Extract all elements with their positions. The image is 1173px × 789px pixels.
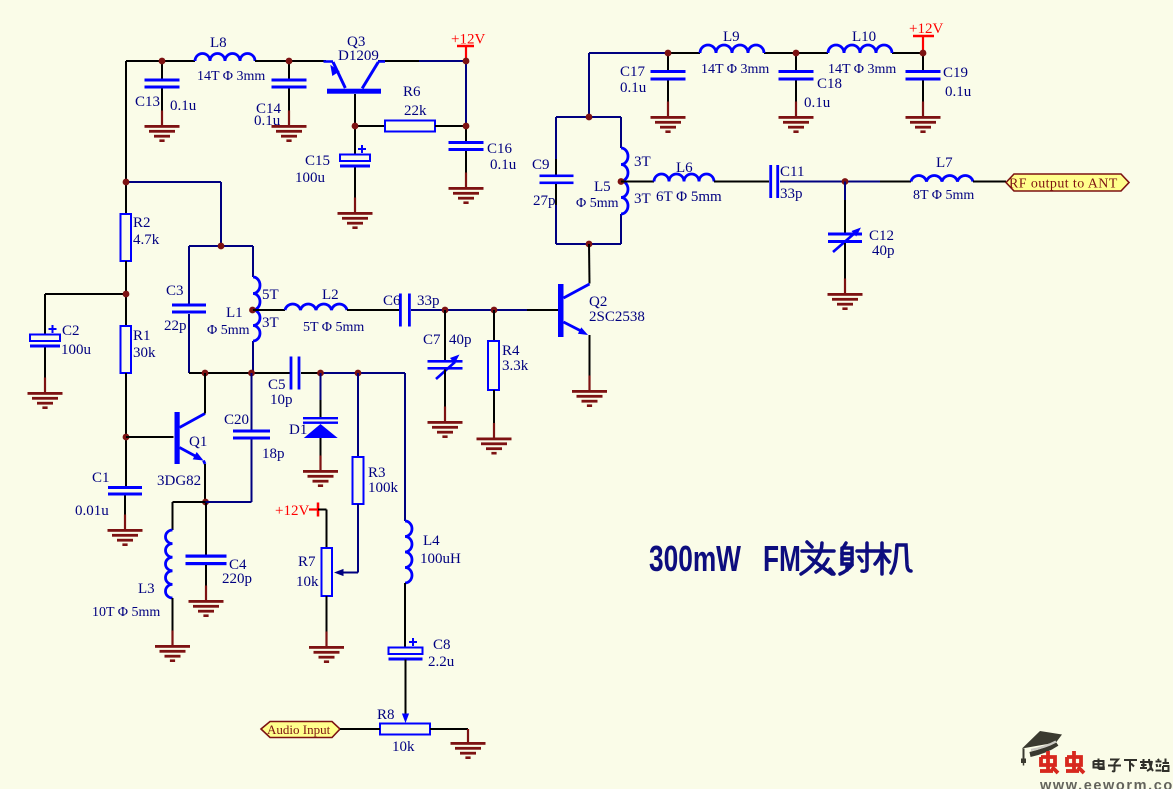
svg-text:3T: 3T [634, 191, 651, 207]
svg-text:R3: R3 [368, 465, 386, 481]
svg-text:D1: D1 [289, 422, 307, 438]
svg-text:Audio Input: Audio Input [267, 722, 331, 737]
svg-text:4.7k: 4.7k [133, 232, 160, 248]
svg-text:30k: 30k [133, 345, 156, 361]
svg-text:L2: L2 [322, 287, 339, 303]
svg-text:220p: 220p [222, 571, 252, 587]
svg-text:L9: L9 [723, 29, 740, 45]
svg-text:10T Φ 5mm: 10T Φ 5mm [92, 605, 160, 620]
svg-text:R7: R7 [298, 554, 316, 570]
svg-text:100uH: 100uH [420, 551, 461, 567]
svg-text:2.2u: 2.2u [428, 654, 455, 670]
svg-text:D1209: D1209 [338, 48, 379, 64]
svg-text:+12V: +12V [909, 21, 943, 37]
svg-text:3.3k: 3.3k [502, 358, 529, 374]
svg-text:L7: L7 [936, 155, 953, 171]
svg-text:C18: C18 [817, 76, 842, 92]
svg-text:L5: L5 [594, 179, 611, 195]
svg-text:RF output to ANT: RF output to ANT [1009, 177, 1118, 192]
svg-text:27p: 27p [533, 193, 556, 209]
svg-text:R8: R8 [377, 707, 395, 723]
svg-text:10k: 10k [392, 739, 415, 755]
svg-text:10p: 10p [270, 392, 293, 408]
svg-text:C15: C15 [305, 153, 330, 169]
svg-text:C12: C12 [869, 228, 894, 244]
svg-text:L3: L3 [138, 581, 155, 597]
svg-text:L8: L8 [210, 35, 227, 51]
svg-text:L6: L6 [676, 160, 693, 176]
svg-text:0.1u: 0.1u [804, 95, 831, 111]
svg-text:Q1: Q1 [189, 434, 207, 450]
svg-text:3T: 3T [262, 315, 279, 331]
svg-text:C9: C9 [532, 157, 550, 173]
svg-text:+12V: +12V [275, 503, 309, 519]
svg-text:33p: 33p [780, 186, 803, 202]
svg-text:0.1u: 0.1u [490, 157, 517, 173]
svg-text:0.01u: 0.01u [75, 503, 109, 519]
svg-text:40p: 40p [449, 332, 472, 348]
svg-text:3DG82: 3DG82 [157, 473, 201, 489]
svg-text:0.1u: 0.1u [620, 80, 647, 96]
svg-text:14T Φ 3mm: 14T Φ 3mm [828, 62, 896, 77]
svg-text:3T: 3T [634, 154, 651, 170]
svg-text:5T: 5T [262, 287, 279, 303]
svg-text:100u: 100u [295, 170, 326, 186]
svg-text:5T Φ 5mm: 5T Φ 5mm [303, 320, 364, 335]
svg-text:C17: C17 [620, 64, 646, 80]
svg-text:14T Φ 3mm: 14T Φ 3mm [197, 69, 265, 84]
svg-text:FM: FM [763, 538, 801, 579]
svg-text:100k: 100k [368, 480, 399, 496]
svg-text:C7: C7 [423, 332, 441, 348]
svg-text:+12V: +12V [451, 32, 485, 48]
svg-text:C13: C13 [135, 94, 160, 110]
svg-text:22k: 22k [404, 103, 427, 119]
svg-text:C11: C11 [780, 164, 804, 180]
svg-text:C19: C19 [943, 65, 968, 81]
svg-text:100u: 100u [61, 342, 92, 358]
svg-text:C2: C2 [62, 323, 80, 339]
svg-text:Φ 5mm: Φ 5mm [207, 323, 250, 338]
svg-text:Q2: Q2 [589, 294, 607, 310]
svg-text:C1: C1 [92, 470, 110, 486]
svg-text:C8: C8 [433, 637, 451, 653]
svg-text:C20: C20 [224, 412, 249, 428]
svg-text:0.1u: 0.1u [945, 84, 972, 100]
svg-text:C16: C16 [487, 141, 513, 157]
svg-text:www.eeworm.com: www.eeworm.com [1039, 778, 1173, 789]
svg-text:22p: 22p [164, 318, 187, 334]
svg-text:L4: L4 [423, 533, 440, 549]
svg-text:Φ 5mm: Φ 5mm [576, 196, 619, 211]
svg-text:14T Φ 3mm: 14T Φ 3mm [701, 62, 769, 77]
svg-text:C3: C3 [166, 283, 184, 299]
svg-text:6T Φ 5mm: 6T Φ 5mm [656, 189, 722, 205]
svg-text:40p: 40p [872, 243, 895, 259]
svg-text:C6: C6 [383, 293, 401, 309]
svg-text:R4: R4 [502, 343, 520, 359]
svg-text:L10: L10 [852, 29, 876, 45]
svg-text:R1: R1 [133, 328, 151, 344]
svg-text:8T Φ 5mm: 8T Φ 5mm [913, 188, 974, 203]
svg-text:0.1u: 0.1u [254, 113, 281, 129]
svg-text:33p: 33p [417, 293, 440, 309]
svg-text:0.1u: 0.1u [170, 98, 197, 114]
svg-text:10k: 10k [296, 574, 319, 590]
svg-text:C5: C5 [268, 377, 286, 393]
svg-text:18p: 18p [262, 446, 285, 462]
svg-text:300mW: 300mW [649, 538, 741, 579]
svg-text:R2: R2 [133, 215, 151, 231]
svg-text:R6: R6 [403, 84, 421, 100]
svg-text:L1: L1 [226, 305, 243, 321]
svg-text:2SC2538: 2SC2538 [589, 309, 645, 325]
